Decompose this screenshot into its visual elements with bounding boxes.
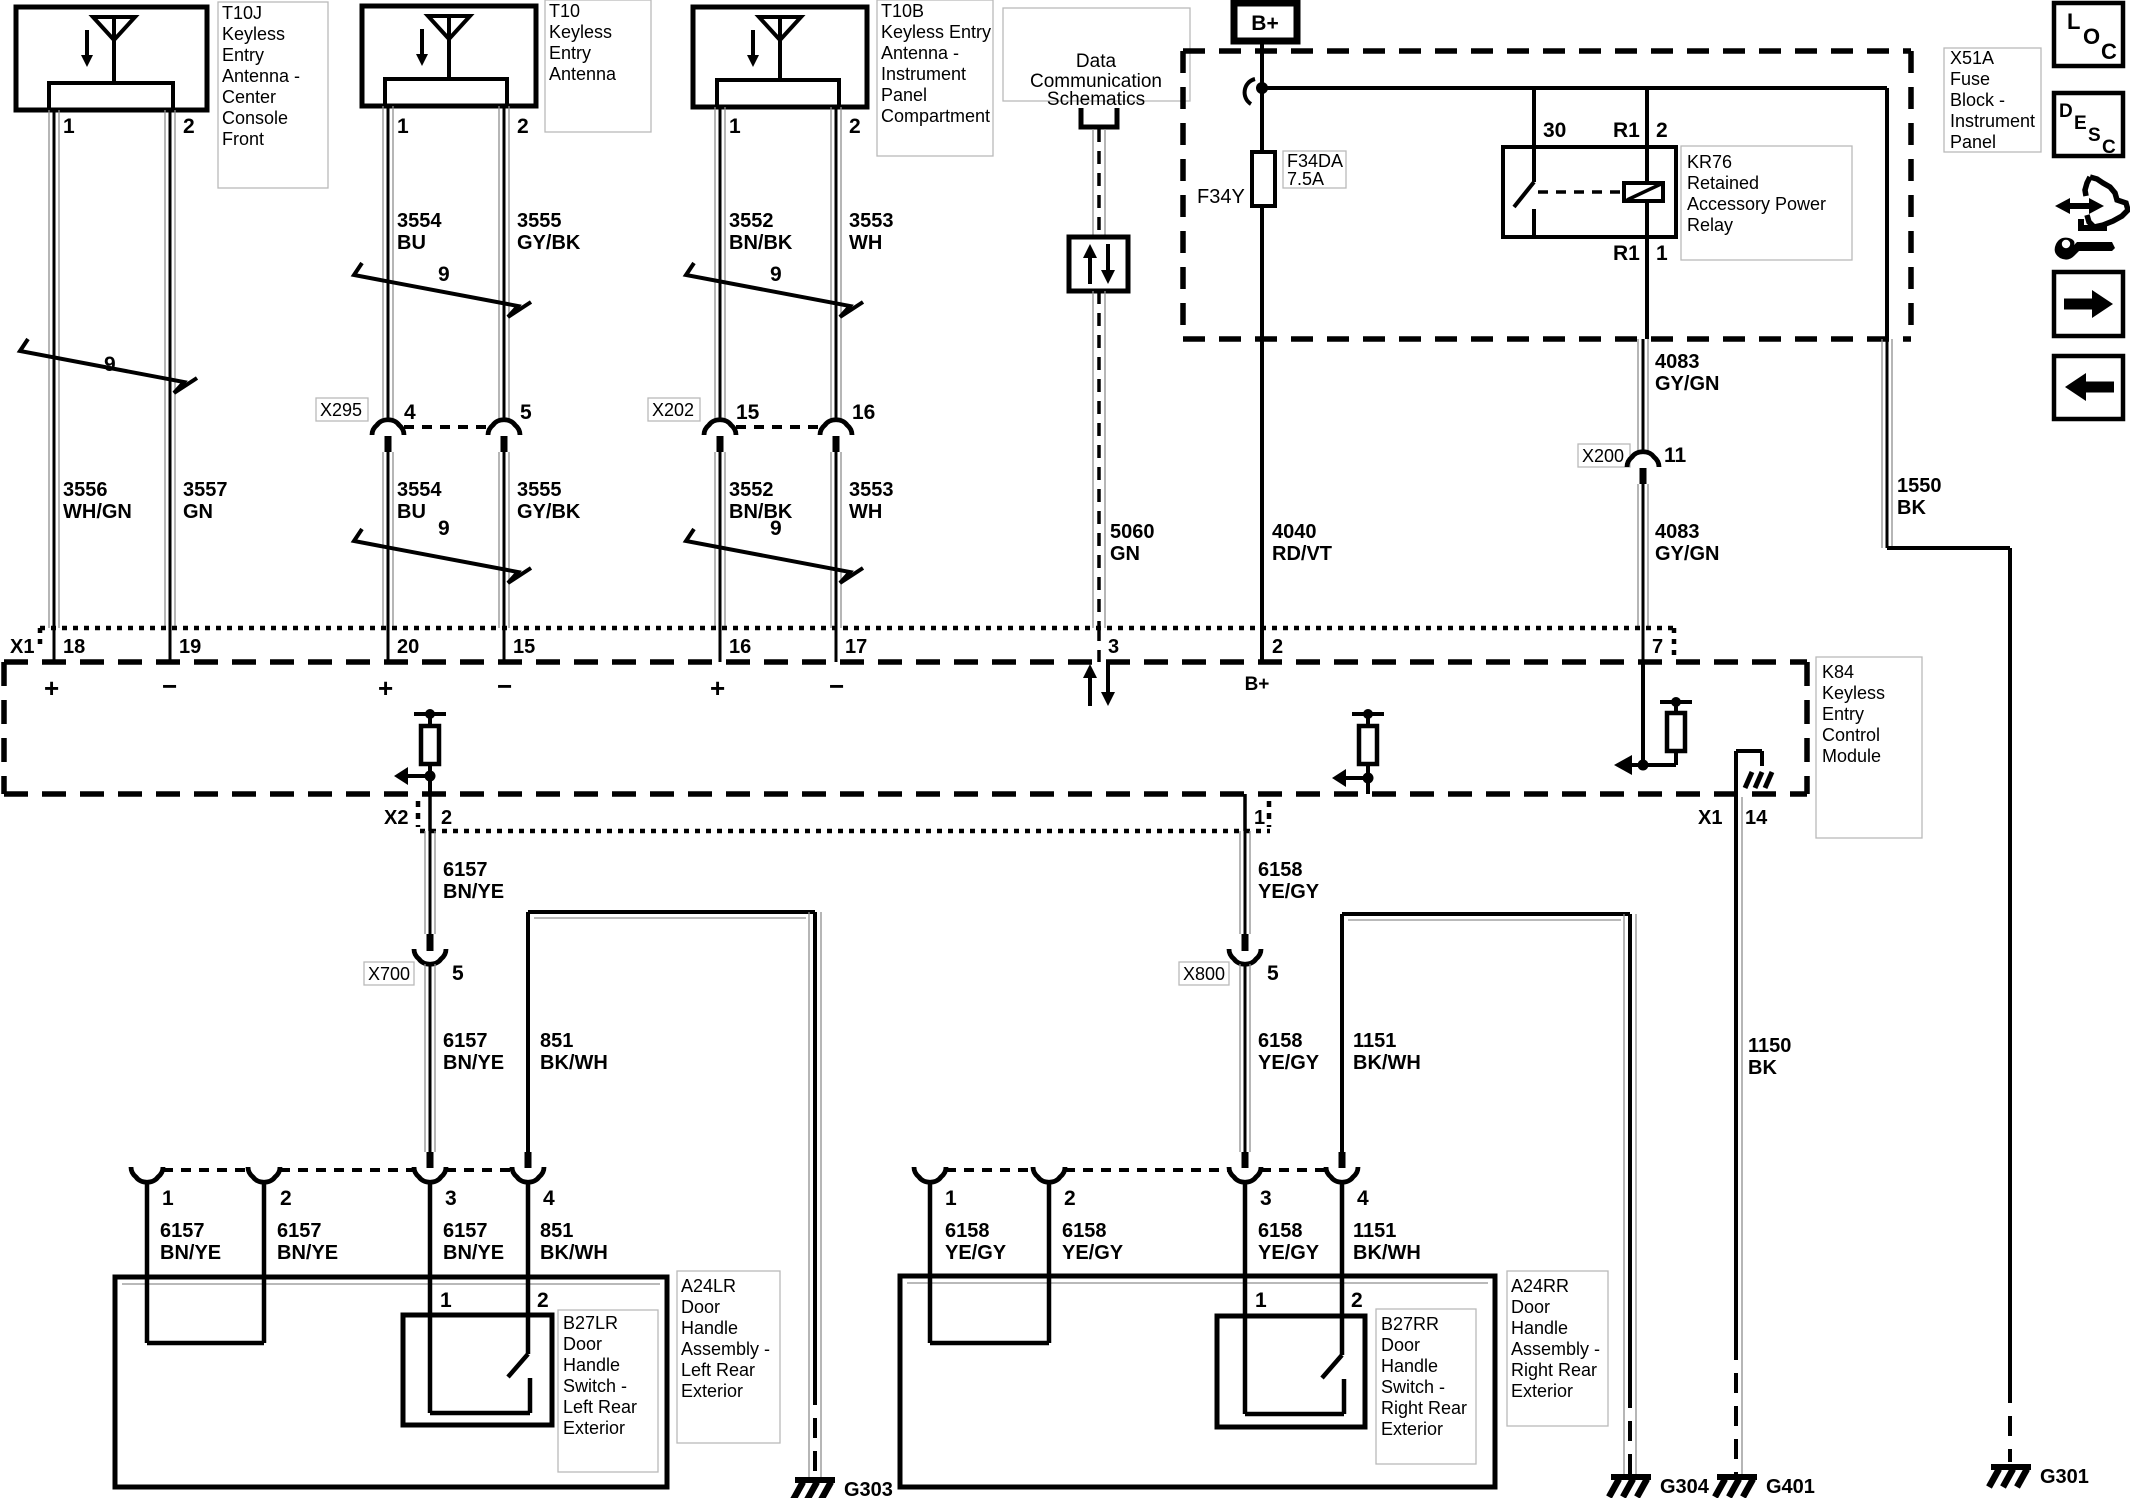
junction dot B+ distribution [1256, 82, 1268, 94]
svg-text:Schematics: Schematics [1047, 89, 1145, 110]
svg-text:BN/BK: BN/BK [729, 232, 793, 254]
connector X295 mating dashed link [404, 425, 488, 429]
svg-text:Relay: Relay [1687, 215, 1733, 235]
wire label 3555 GY/BK lower [517, 479, 581, 523]
svg-text:WH/GN: WH/GN [63, 501, 132, 523]
svg-text:2: 2 [517, 115, 529, 138]
svg-text:1: 1 [1656, 242, 1668, 265]
svg-text:R1: R1 [1613, 119, 1640, 142]
wire X700 to door connector pin 3, circuit 6157 BN/YE [425, 964, 435, 1168]
svg-text:KR76: KR76 [1687, 152, 1732, 172]
wire label 3557 GN [183, 479, 228, 523]
svg-text:Entry: Entry [1822, 704, 1864, 724]
wire label 3553 WH lower [849, 479, 894, 523]
label T10 [545, 0, 651, 132]
icon forward arrow box [2054, 272, 2123, 336]
door connector right cavity 4 [1326, 1167, 1369, 1210]
wire label 6158 YE/GY upper [1258, 859, 1320, 903]
svg-text:Retained: Retained [1687, 173, 1759, 193]
wire label 6158 YE/GY lower [1258, 1030, 1320, 1074]
svg-text:Control: Control [1822, 725, 1880, 745]
svg-text:Handle: Handle [1381, 1356, 1438, 1376]
svg-text:Right Rear: Right Rear [1381, 1398, 1467, 1418]
door connector right mating dashed link [946, 1168, 1326, 1172]
svg-text:T10J: T10J [222, 3, 262, 23]
svg-text:1: 1 [397, 115, 409, 138]
power symbol B+ [1234, 3, 1297, 41]
svg-text:GN: GN [183, 501, 213, 523]
wire relay R1-1 to X200, circuit 4083 GY/GN [1638, 339, 1648, 452]
svg-text:6158: 6158 [1258, 1220, 1303, 1242]
svg-text:T10: T10 [549, 1, 580, 21]
svg-text:Fuse: Fuse [1950, 69, 1990, 89]
svg-text:BN/YE: BN/YE [443, 1052, 504, 1074]
svg-text:Data: Data [1076, 51, 1117, 72]
svg-text:Console: Console [222, 108, 288, 128]
door handle switch B27LR box [403, 1315, 552, 1425]
wire label 6157 BN/YE upper [443, 859, 504, 903]
svg-text:Block -: Block - [1950, 90, 2005, 110]
wire label 3553 WH upper [849, 210, 894, 254]
svg-text:X51A: X51A [1950, 48, 1994, 68]
wire K84 pin 7 internal with arrow to resistor [1614, 662, 1692, 775]
wire T10 pin1 lower segment to K84 X1-20, circuit 3554 BU [383, 452, 393, 662]
relay KR76 switch contact [1514, 182, 1534, 237]
svg-text:BK/WH: BK/WH [540, 1052, 608, 1074]
door connector left mating dashed link [163, 1168, 512, 1172]
wire label 3555 GY/BK upper [517, 210, 581, 254]
svg-text:BK: BK [1897, 497, 1926, 519]
svg-text:16: 16 [729, 636, 751, 658]
svg-text:X800: X800 [1183, 964, 1225, 984]
wire X200 to K84 X1-7, circuit 4083 GY/GN [1638, 484, 1648, 662]
svg-text:YE/GY: YE/GY [1258, 881, 1320, 903]
svg-text:1151: 1151 [1353, 1030, 1396, 1052]
svg-text:A24RR: A24RR [1511, 1276, 1569, 1296]
svg-text:Assembly -: Assembly - [1511, 1339, 1600, 1359]
svg-text:Exterior: Exterior [1381, 1419, 1443, 1439]
fuse block X51A dashed outline [1183, 51, 1911, 339]
wire pin3 into switch B27LR [428, 1182, 433, 1315]
label Data Communication Schematics [1003, 8, 1190, 110]
wire T10 pin2 lower segment to K84 X1-15, circuit 3555 GY/BK [499, 452, 509, 662]
svg-text:BN/YE: BN/YE [443, 1242, 504, 1264]
svg-text:X700: X700 [368, 964, 410, 984]
door handle assembly A24LR box [115, 1277, 667, 1487]
svg-text:3: 3 [445, 1187, 457, 1210]
wire label 3554 BU lower [397, 479, 442, 523]
ground G303 [793, 1479, 893, 1498]
svg-text:X1: X1 [1698, 807, 1722, 829]
icon component view with wrench [2055, 177, 2128, 260]
wire label 6158 YE/GY at pin 3 [1258, 1220, 1320, 1264]
wire pin3 into switch B27RR [1243, 1182, 1248, 1316]
svg-text:−: − [497, 671, 512, 701]
svg-text:B+: B+ [1251, 12, 1278, 35]
svg-text:1150: 1150 [1748, 1035, 1791, 1057]
svg-text:C: C [2102, 137, 2116, 158]
serial data wire lower segment to K84 X1-3, circuit 5060 GN [1093, 291, 1105, 662]
connector X202 label [648, 398, 700, 421]
icon LOC box [2054, 3, 2123, 66]
svg-text:X202: X202 [652, 400, 694, 420]
splice clip symbol at B+ junction [1245, 79, 1255, 104]
svg-text:6158: 6158 [1258, 1030, 1303, 1052]
wire T10B pin1 lower segment to K84 X1-16, circuit 3552 BN/BK [715, 452, 725, 662]
svg-text:BN/YE: BN/YE [443, 881, 504, 903]
connector X200 label [1578, 444, 1630, 467]
svg-text:BN/BK: BN/BK [729, 501, 793, 523]
svg-text:Handle: Handle [1511, 1318, 1568, 1338]
svg-text:9: 9 [438, 263, 450, 286]
svg-text:Entry: Entry [222, 45, 264, 65]
svg-text:Panel: Panel [1950, 132, 1996, 152]
wire label 6158 YE/GY at pin 1 [945, 1220, 1007, 1264]
svg-text:Accessory Power: Accessory Power [1687, 194, 1826, 214]
svg-text:BK/WH: BK/WH [1353, 1242, 1421, 1264]
svg-text:1: 1 [162, 1187, 174, 1210]
svg-text:1151: 1151 [1353, 1220, 1396, 1242]
svg-text:GY/GN: GY/GN [1655, 373, 1719, 395]
switch B27LR contacts [430, 1315, 530, 1413]
svg-text:851: 851 [540, 1030, 573, 1052]
connector X800 label [1179, 962, 1229, 985]
wire label 1151 BK/WH upper [1353, 1030, 1421, 1074]
svg-text:4: 4 [404, 401, 416, 424]
wire 1550 BK horizontal jog [1887, 546, 2010, 550]
K84 internal pull-up resistor with output arrow for X2-2 [394, 709, 446, 794]
svg-text:G301: G301 [2040, 1466, 2089, 1488]
door connector left cavity 2 [248, 1167, 292, 1210]
wire label 4040 RD/VT [1272, 521, 1332, 565]
svg-text:4: 4 [543, 1187, 555, 1210]
svg-text:G303: G303 [844, 1479, 893, 1498]
label T10J [218, 2, 328, 188]
svg-text:−: − [829, 671, 844, 701]
door handle assembly A24RR box [900, 1276, 1495, 1487]
svg-text:3553: 3553 [849, 210, 894, 232]
svg-text:14: 14 [1745, 807, 1768, 829]
wire 1550 BK from fuse block to corner [1882, 339, 1892, 548]
wire label 6157 BN/YE at pin 1 [160, 1220, 221, 1264]
K84 internal chassis ground at X1-14 [1736, 751, 1772, 794]
svg-text:1: 1 [440, 1289, 452, 1312]
serial data arrows inside K84 [1083, 664, 1115, 706]
wire label 3554 BU upper [397, 210, 442, 254]
svg-text:2: 2 [1272, 636, 1283, 658]
svg-text:Assembly -: Assembly - [681, 1339, 770, 1359]
wire label 4083 GY/GN lower [1655, 521, 1719, 565]
wire B+ to splice [1260, 41, 1264, 152]
svg-text:15: 15 [513, 636, 535, 658]
svg-text:YE/GY: YE/GY [945, 1242, 1007, 1264]
svg-text:Instrument: Instrument [1950, 111, 2035, 131]
svg-text:4040: 4040 [1272, 521, 1317, 543]
svg-text:2: 2 [849, 115, 861, 138]
switch B27RR contacts [1245, 1316, 1344, 1414]
serial data bidirectional symbol box [1069, 237, 1128, 291]
antenna T10J Keyless Entry Antenna - Center Console Front [16, 7, 207, 110]
svg-text:9: 9 [104, 353, 116, 376]
svg-text:Antenna -: Antenna - [222, 66, 300, 86]
svg-text:Keyless: Keyless [1822, 683, 1885, 703]
wire pin4 into switch B27LR [526, 1182, 531, 1354]
svg-text:4083: 4083 [1655, 521, 1700, 543]
wire K84 X2-1 to X800, circuit 6158 YE/GY [1240, 794, 1250, 951]
svg-text:K84: K84 [1822, 662, 1854, 682]
K84 Keyless Entry Control Module dashed outline [4, 662, 1807, 794]
svg-text:Module: Module [1822, 746, 1881, 766]
svg-text:Door: Door [1381, 1335, 1420, 1355]
wire label 6158 YE/GY at pin 2 [1062, 1220, 1124, 1264]
door connector left cavity 1 [131, 1167, 174, 1210]
svg-text:BK/WH: BK/WH [1353, 1052, 1421, 1074]
svg-text:15: 15 [736, 401, 760, 424]
svg-text:+: + [378, 673, 393, 703]
K84 connector X2 dotted line [418, 801, 1270, 831]
fuse F34Y F34DA 7.5A [1252, 152, 1275, 206]
wire X800 to door connector pin 3, circuit 6158 YE/GY [1240, 964, 1250, 1168]
svg-text:WH: WH [849, 232, 882, 254]
wire K84 X1-14 to G401, circuit 1150 BK [1736, 794, 1742, 1477]
svg-text:Keyless Entry: Keyless Entry [881, 22, 991, 42]
svg-text:Keyless: Keyless [222, 24, 285, 44]
K84 connector X1 dotted line [40, 628, 1674, 660]
door connector right cavity 3 [1229, 1167, 1272, 1210]
svg-text:1: 1 [63, 115, 75, 138]
wire K84 X2-2 to X700, circuit 6157 BN/YE [425, 794, 435, 951]
svg-text:6158: 6158 [945, 1220, 990, 1242]
wire label 3552 BN/BK lower [729, 479, 793, 523]
svg-text:GN: GN [1110, 543, 1140, 565]
svg-text:6158: 6158 [1062, 1220, 1107, 1242]
svg-text:Switch -: Switch - [1381, 1377, 1445, 1397]
label A24RR Door Handle Assembly - Right Rear Exterior [1507, 1271, 1608, 1426]
connector X700 cavity 5 [414, 949, 464, 985]
svg-text:1: 1 [945, 1187, 957, 1210]
svg-text:Compartment: Compartment [881, 106, 990, 126]
svg-text:F34Y: F34Y [1197, 186, 1245, 208]
svg-text:7: 7 [1652, 636, 1663, 658]
svg-text:Entry: Entry [549, 43, 591, 63]
svg-text:Handle: Handle [681, 1318, 738, 1338]
svg-text:17: 17 [845, 636, 867, 658]
shield symbol 9 on T10 pair lower [354, 517, 531, 583]
label KR76 Retained Accessory Power Relay [1681, 146, 1852, 260]
wire label 1550 BK [1897, 475, 1942, 519]
svg-text:16: 16 [852, 401, 875, 424]
wire T10 pin1 upper segment, circuit 3554 BU [383, 106, 393, 420]
svg-text:7.5A: 7.5A [1287, 169, 1324, 189]
svg-text:Antenna -: Antenna - [881, 43, 959, 63]
svg-text:2: 2 [1656, 119, 1668, 142]
svg-text:30: 30 [1543, 119, 1566, 142]
wire B+ distribution inside fuse block right side [1885, 88, 1889, 339]
svg-text:Door: Door [1511, 1297, 1550, 1317]
svg-text:Door: Door [681, 1297, 720, 1317]
connector X295 cavity 4 [372, 401, 416, 452]
svg-text:YE/GY: YE/GY [1258, 1242, 1320, 1264]
label B27RR Door Handle Switch - Right Rear Exterior [1376, 1309, 1476, 1464]
relay KR76 box [1503, 147, 1676, 237]
svg-text:Left Rear: Left Rear [563, 1397, 637, 1417]
svg-text:L: L [2067, 9, 2080, 34]
svg-text:B+: B+ [1245, 674, 1270, 695]
svg-text:2: 2 [537, 1289, 549, 1312]
svg-text:Exterior: Exterior [563, 1418, 625, 1438]
svg-text:19: 19 [179, 636, 201, 658]
wire T10B pin2 upper segment, circuit 3553 WH [831, 107, 841, 420]
wire door handle pin 4 loop to G304, circuit 1151 BK/WH [1339, 914, 1637, 1477]
label X51A Fuse Block - Instrument Panel [1944, 48, 2041, 152]
svg-text:T10B: T10B [881, 1, 924, 21]
connector X200 cavity 11 [1627, 444, 1687, 484]
svg-text:X200: X200 [1582, 446, 1624, 466]
svg-text:Handle: Handle [563, 1355, 620, 1375]
svg-text:Exterior: Exterior [1511, 1381, 1573, 1401]
K84 internal pull-up resistor with output arrow for X2-1 [1332, 709, 1384, 794]
jumper loop pins 1-2 inside A24RR [930, 1182, 1049, 1343]
svg-text:6157: 6157 [443, 1030, 488, 1052]
wire label 3556 WH/GN [63, 479, 132, 523]
svg-text:9: 9 [438, 517, 450, 540]
svg-text:Keyless: Keyless [549, 22, 612, 42]
svg-text:−: − [162, 671, 177, 701]
svg-text:2: 2 [1351, 1289, 1363, 1312]
connector X295 cavity 5 [488, 401, 532, 452]
svg-text:3554: 3554 [397, 479, 442, 501]
shield symbol 9 on T10J pair [20, 339, 197, 393]
wire T10 pin2 upper segment, circuit 3555 GY/BK [499, 106, 509, 420]
svg-text:2: 2 [280, 1187, 292, 1210]
svg-text:2: 2 [1064, 1187, 1076, 1210]
svg-text:C: C [2101, 39, 2117, 64]
wire label 6157 BN/YE at pin 2 [277, 1220, 338, 1264]
svg-text:E: E [2074, 113, 2087, 134]
ground G401 [1715, 1476, 1815, 1498]
svg-text:BU: BU [397, 232, 426, 254]
wire door handle pin 4 loop to G303, circuit 851 BK/WH [525, 912, 822, 1477]
svg-text:+: + [710, 673, 725, 703]
wire label 851 BK/WH upper [540, 1030, 608, 1074]
svg-text:+: + [44, 673, 59, 703]
svg-text:YE/GY: YE/GY [1062, 1242, 1124, 1264]
wire T10B pin2 lower segment to K84 X1-17, circuit 3553 WH [831, 452, 841, 662]
svg-text:1: 1 [729, 115, 741, 138]
svg-text:RD/VT: RD/VT [1272, 543, 1332, 565]
svg-text:1550: 1550 [1897, 475, 1942, 497]
svg-text:4: 4 [1357, 1187, 1369, 1210]
relay pin R1 1 label [1613, 242, 1668, 265]
svg-text:3556: 3556 [63, 479, 108, 501]
relay pin R1 2 label [1613, 119, 1668, 142]
svg-text:6157: 6157 [443, 1220, 488, 1242]
svg-text:9: 9 [770, 517, 782, 540]
shield symbol 9 on T10B pair lower [686, 517, 863, 583]
svg-text:Left Rear: Left Rear [681, 1360, 755, 1380]
svg-text:Center: Center [222, 87, 276, 107]
svg-text:F34DA: F34DA [1287, 151, 1343, 171]
wire label 1150 BK [1748, 1035, 1791, 1079]
connector X202 mating dashed link [736, 425, 820, 429]
svg-text:WH: WH [849, 501, 882, 523]
svg-text:1: 1 [1254, 807, 1265, 829]
svg-text:Panel: Panel [881, 85, 927, 105]
svg-text:GY/BK: GY/BK [517, 501, 581, 523]
shield symbol 9 on T10B pair upper [686, 263, 863, 317]
svg-text:BK: BK [1748, 1057, 1777, 1079]
door handle switch B27RR box [1217, 1316, 1365, 1427]
svg-text:20: 20 [397, 636, 419, 658]
door connector left cavity 4 [512, 1167, 555, 1210]
svg-text:Front: Front [222, 129, 264, 149]
svg-text:3553: 3553 [849, 479, 894, 501]
svg-text:GY/GN: GY/GN [1655, 543, 1719, 565]
off-page bracket under Data Communication Schematics [1081, 108, 1117, 127]
wire T10J pin1 to K84 X1-18, circuit 3556 WH/GN [49, 110, 59, 662]
wire B+ distribution to relay pin 30 [1532, 88, 1536, 182]
connector X202 cavity 15 [704, 401, 760, 452]
wire label 4083 GY/GN upper [1655, 351, 1719, 395]
wire label 6157 BN/YE at pin 3 [443, 1220, 504, 1264]
svg-text:D: D [2059, 101, 2073, 122]
icon back arrow box [2054, 356, 2123, 419]
ground G301 [1989, 1466, 2089, 1488]
wire T10B pin1 upper segment, circuit 3552 BN/BK [715, 107, 725, 420]
svg-text:5060: 5060 [1110, 521, 1155, 543]
svg-text:X1: X1 [10, 636, 34, 658]
connector X295 label [316, 398, 368, 421]
wire label 5060 GN [1110, 521, 1155, 565]
antenna T10 Keyless Entry Antenna [362, 6, 536, 106]
svg-text:6157: 6157 [160, 1220, 205, 1242]
svg-text:O: O [2083, 24, 2100, 49]
svg-text:R1: R1 [1613, 242, 1640, 265]
svg-text:3555: 3555 [517, 479, 562, 501]
connector X800 cavity 5 [1229, 949, 1279, 985]
svg-text:2: 2 [183, 115, 195, 138]
svg-text:G304: G304 [1660, 1476, 1710, 1498]
svg-text:3557: 3557 [183, 479, 228, 501]
svg-text:BK/WH: BK/WH [540, 1242, 608, 1264]
antenna T10B Keyless Entry Antenna - Instrument Panel Compartment [693, 7, 867, 107]
svg-text:5: 5 [452, 962, 464, 985]
wire B+ distribution to relay coil pin R1-2 [1645, 88, 1649, 183]
svg-text:1: 1 [1255, 1289, 1267, 1312]
wire fuse to K84 X1-2, circuit 4040 RD/VT [1260, 206, 1264, 662]
svg-text:3552: 3552 [729, 479, 774, 501]
svg-text:Switch -: Switch - [563, 1376, 627, 1396]
wire label 851 BK/WH at pin 4 [540, 1220, 608, 1264]
label A24LR Door Handle Assembly - Left Rear Exterior [677, 1271, 780, 1443]
svg-text:3552: 3552 [729, 210, 774, 232]
svg-text:S: S [2088, 125, 2101, 146]
svg-text:3554: 3554 [397, 210, 442, 232]
svg-text:9: 9 [770, 263, 782, 286]
label T10B [877, 0, 993, 156]
svg-text:Door: Door [563, 1334, 602, 1354]
svg-text:5: 5 [1267, 962, 1279, 985]
svg-text:11: 11 [1664, 444, 1687, 467]
wire label 1151 BK/WH at pin 4 [1353, 1220, 1421, 1264]
wire 1550 BK down to G301 [2008, 548, 2012, 1462]
svg-text:3: 3 [1260, 1187, 1272, 1210]
svg-text:5: 5 [520, 401, 532, 424]
wire label 3552 BN/BK upper [729, 210, 793, 254]
door connector left cavity 3 [414, 1167, 457, 1210]
svg-text:G401: G401 [1766, 1476, 1815, 1498]
wire pin4 into switch B27RR [1340, 1182, 1345, 1355]
